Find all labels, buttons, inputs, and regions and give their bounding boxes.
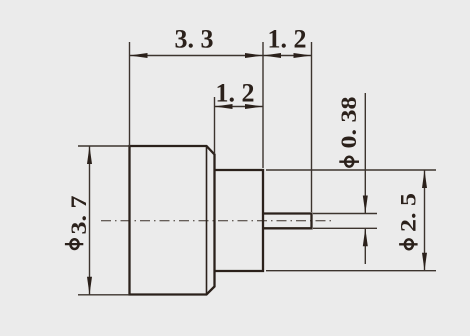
dimension line 1.2 lower xyxy=(215,106,264,108)
pin outline xyxy=(263,214,312,229)
arrow left of 3.3 xyxy=(130,53,148,58)
arrow right of lower 1.2 xyxy=(245,104,263,109)
dimension Phi0.38 extension line top (from pin) xyxy=(313,213,377,215)
arrow top of Phi3.7 xyxy=(87,146,92,164)
arrow down to pin top (Phi0.38) xyxy=(363,196,368,214)
arrow left of top 1.2 xyxy=(263,53,281,58)
label Phi3.7 phi symbol stem xyxy=(65,243,83,245)
arrow right of 3.3 xyxy=(245,53,263,58)
dimension extension line at body/small-cylinder junction (shared 3.3 / 1.2) xyxy=(262,42,264,168)
label Phi0.38 phi symbol stem xyxy=(339,161,359,163)
dimension line Phi0.38 upper segment xyxy=(364,93,366,214)
dimension 1.2 (lower) extension line left xyxy=(214,97,216,154)
label Phi0.38 phi symbol circle xyxy=(345,157,353,167)
dimension Phi3.7 extension line bottom xyxy=(78,294,130,296)
label Phi2.5 phi symbol stem xyxy=(399,243,418,245)
label Phi3.7 digits (rotated) xyxy=(68,196,92,235)
dimension Phi0.38 extension line bottom (from pin) xyxy=(313,227,377,229)
arrow bottom of Phi3.7 xyxy=(87,277,92,295)
dimension 3.3 extension line left xyxy=(129,42,131,146)
arrow left of lower 1.2 xyxy=(215,104,233,109)
dimension Phi3.7 extension line top xyxy=(78,145,130,147)
dimension 1.2 extension line at pin end xyxy=(311,42,313,212)
small cylinder outline xyxy=(215,170,264,271)
label Phi3.7 phi symbol circle xyxy=(70,239,78,249)
arrow top of Phi2.5 xyxy=(422,170,427,188)
svg-text:2. 5: 2. 5 xyxy=(397,193,421,232)
dimension line Phi0.38 lower segment xyxy=(364,228,366,264)
svg-text:1. 2: 1. 2 xyxy=(216,79,255,108)
dimension line Phi3.7 xyxy=(89,146,91,295)
dimension line Phi2.5 xyxy=(424,170,426,271)
label Phi2.5 phi symbol circle xyxy=(405,239,413,249)
dimension Phi2.5 extension line bottom xyxy=(266,270,436,272)
label Phi2.5 digits (rotated) xyxy=(397,193,421,232)
centerline (dash-dot axis) xyxy=(101,220,331,222)
label Phi0.38 digits (rotated) xyxy=(338,97,362,149)
big cylinder body outline xyxy=(130,146,215,295)
arrow right of top 1.2 xyxy=(294,53,312,58)
svg-text:1. 2: 1. 2 xyxy=(268,25,307,54)
svg-text:3. 3: 3. 3 xyxy=(175,25,214,54)
arrow up to pin bottom (Phi0.38) xyxy=(363,228,368,246)
svg-text:0. 38: 0. 38 xyxy=(338,97,362,149)
dimension Phi2.5 extension line top xyxy=(266,169,436,171)
chamfer edge line xyxy=(206,146,208,295)
arrow bottom of Phi2.5 xyxy=(422,253,427,271)
dimension line 3.3 and 1.2 (top) xyxy=(130,55,312,57)
svg-text:3. 7: 3. 7 xyxy=(68,196,92,235)
